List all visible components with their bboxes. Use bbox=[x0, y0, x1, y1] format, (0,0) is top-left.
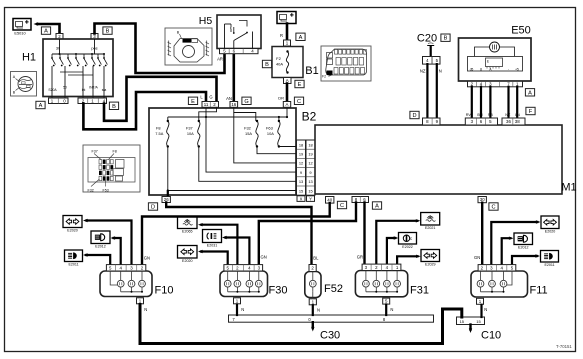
svg-text:B: B bbox=[112, 104, 116, 110]
svg-text:B1: B1 bbox=[305, 65, 318, 77]
svg-text:F52: F52 bbox=[324, 283, 343, 295]
svg-text:9: 9 bbox=[300, 170, 302, 175]
svg-text:10A: 10A bbox=[267, 131, 274, 136]
svg-text:N: N bbox=[317, 308, 320, 313]
svg-text:LN: LN bbox=[515, 113, 520, 117]
svg-text:19: 19 bbox=[299, 152, 303, 157]
svg-text:G: G bbox=[244, 99, 248, 105]
svg-text:AN: AN bbox=[226, 96, 232, 101]
svg-text:N: N bbox=[439, 69, 442, 74]
svg-text:F11: F11 bbox=[530, 285, 548, 297]
svg-text:E2065: E2065 bbox=[182, 230, 192, 234]
svg-text:F30: F30 bbox=[269, 285, 288, 297]
svg-text:12: 12 bbox=[299, 161, 303, 166]
svg-text:sta: sta bbox=[102, 88, 107, 92]
svg-text:E: E bbox=[191, 99, 195, 105]
svg-text:D: D bbox=[151, 205, 155, 211]
svg-text:d5: d5 bbox=[470, 67, 474, 71]
svg-text:E2012: E2012 bbox=[95, 245, 105, 249]
svg-text:D: D bbox=[412, 113, 416, 119]
svg-text:A: A bbox=[299, 35, 303, 41]
svg-text:C: C bbox=[340, 203, 344, 209]
svg-text:40A: 40A bbox=[276, 62, 283, 67]
svg-text:E2020: E2020 bbox=[67, 229, 77, 233]
svg-text:A: A bbox=[375, 204, 379, 210]
svg-text:E5010: E5010 bbox=[14, 31, 26, 36]
svg-text:F32: F32 bbox=[244, 126, 251, 131]
svg-text:10A: 10A bbox=[187, 131, 194, 136]
svg-text:11: 11 bbox=[204, 102, 209, 107]
svg-text:E2012: E2012 bbox=[518, 246, 528, 250]
svg-text:C20: C20 bbox=[417, 33, 437, 45]
svg-text:C30: C30 bbox=[320, 330, 340, 342]
svg-text:E: E bbox=[487, 60, 489, 64]
svg-text:16: 16 bbox=[231, 102, 236, 107]
svg-text:GN: GN bbox=[261, 255, 267, 260]
svg-text:12: 12 bbox=[308, 161, 312, 166]
svg-text:30: 30 bbox=[480, 197, 485, 202]
svg-text:INT/A: INT/A bbox=[89, 86, 98, 90]
svg-text:F63: F63 bbox=[266, 126, 273, 131]
svg-text:C: C bbox=[297, 99, 301, 105]
svg-text:BL: BL bbox=[313, 255, 319, 260]
svg-text:B2: B2 bbox=[302, 110, 317, 124]
svg-text:E2020: E2020 bbox=[545, 230, 555, 234]
svg-text:13: 13 bbox=[308, 179, 312, 184]
svg-text:F2: F2 bbox=[322, 75, 326, 79]
svg-text:19: 19 bbox=[308, 152, 312, 157]
svg-text:S20A: S20A bbox=[48, 88, 57, 92]
svg-text:T-70151: T-70151 bbox=[556, 344, 572, 349]
svg-text:E50: E50 bbox=[511, 25, 531, 37]
svg-text:N: N bbox=[144, 307, 147, 312]
svg-text:F2: F2 bbox=[276, 56, 281, 61]
svg-text:C10: C10 bbox=[481, 330, 501, 342]
svg-text:BN: BN bbox=[477, 113, 483, 117]
svg-text:40: 40 bbox=[327, 197, 332, 202]
svg-text:E2029: E2029 bbox=[425, 263, 435, 267]
svg-text:13: 13 bbox=[299, 179, 303, 184]
svg-text:15: 15 bbox=[308, 188, 312, 193]
svg-text:A: A bbox=[528, 90, 532, 96]
svg-text:M1: M1 bbox=[561, 182, 576, 194]
svg-text:15A: 15A bbox=[245, 131, 252, 136]
svg-text:15: 15 bbox=[476, 319, 481, 324]
svg-text:F: F bbox=[529, 109, 533, 115]
svg-text:38: 38 bbox=[515, 119, 520, 124]
svg-text:GR: GR bbox=[357, 255, 363, 260]
svg-text:E2011: E2011 bbox=[68, 263, 78, 267]
svg-text:E2031: E2031 bbox=[207, 244, 217, 248]
svg-text:18: 18 bbox=[299, 142, 303, 147]
svg-text:N: N bbox=[484, 307, 487, 312]
svg-text:A: A bbox=[286, 102, 289, 107]
svg-text:E: E bbox=[298, 82, 302, 88]
svg-text:NZ: NZ bbox=[505, 113, 511, 117]
svg-text:H1: H1 bbox=[22, 52, 36, 64]
svg-text:R: R bbox=[280, 33, 283, 38]
svg-text:F8: F8 bbox=[156, 126, 161, 131]
svg-text:F32: F32 bbox=[88, 188, 94, 192]
svg-text:N: N bbox=[390, 307, 393, 312]
svg-text:A: A bbox=[44, 29, 48, 35]
svg-text:X: X bbox=[300, 196, 303, 201]
svg-text:8: 8 bbox=[480, 67, 482, 71]
svg-text:A: A bbox=[39, 103, 43, 109]
svg-text:B: B bbox=[265, 62, 269, 68]
svg-text:15: 15 bbox=[299, 188, 303, 193]
svg-text:B: B bbox=[444, 36, 448, 42]
svg-text:F37: F37 bbox=[186, 126, 193, 131]
svg-text:E2011: E2011 bbox=[544, 263, 554, 267]
svg-text:E2020: E2020 bbox=[182, 259, 192, 263]
svg-text:int: int bbox=[82, 88, 86, 92]
svg-text:B: B bbox=[106, 29, 110, 35]
svg-text:E2022: E2022 bbox=[402, 245, 412, 249]
svg-text:F8: F8 bbox=[113, 150, 117, 154]
svg-text:GN: GN bbox=[474, 255, 480, 260]
svg-text:50: 50 bbox=[63, 86, 67, 90]
svg-text:F31: F31 bbox=[410, 285, 429, 297]
svg-text:DR: DR bbox=[278, 96, 284, 101]
svg-text:9: 9 bbox=[309, 170, 311, 175]
svg-text:SB: SB bbox=[488, 113, 494, 117]
svg-text:E2021: E2021 bbox=[425, 226, 435, 230]
svg-text:NZ: NZ bbox=[420, 69, 426, 74]
svg-text:RV: RV bbox=[466, 113, 472, 117]
svg-text:7.5A: 7.5A bbox=[155, 131, 163, 136]
svg-text:F37: F37 bbox=[92, 150, 98, 154]
svg-text:H5: H5 bbox=[199, 15, 213, 27]
svg-text:Y: Y bbox=[309, 196, 312, 201]
svg-text:F53: F53 bbox=[103, 188, 109, 192]
svg-text:15: 15 bbox=[460, 319, 465, 324]
svg-text:AR: AR bbox=[217, 57, 223, 62]
svg-text:18: 18 bbox=[308, 142, 312, 147]
svg-text:C: C bbox=[491, 205, 495, 211]
svg-text:F10: F10 bbox=[155, 285, 174, 297]
svg-text:G: G bbox=[209, 95, 212, 100]
svg-text:N: N bbox=[241, 307, 244, 312]
svg-text:36: 36 bbox=[506, 119, 511, 124]
svg-text:GN: GN bbox=[144, 255, 150, 260]
svg-text:+5: +5 bbox=[515, 67, 519, 71]
